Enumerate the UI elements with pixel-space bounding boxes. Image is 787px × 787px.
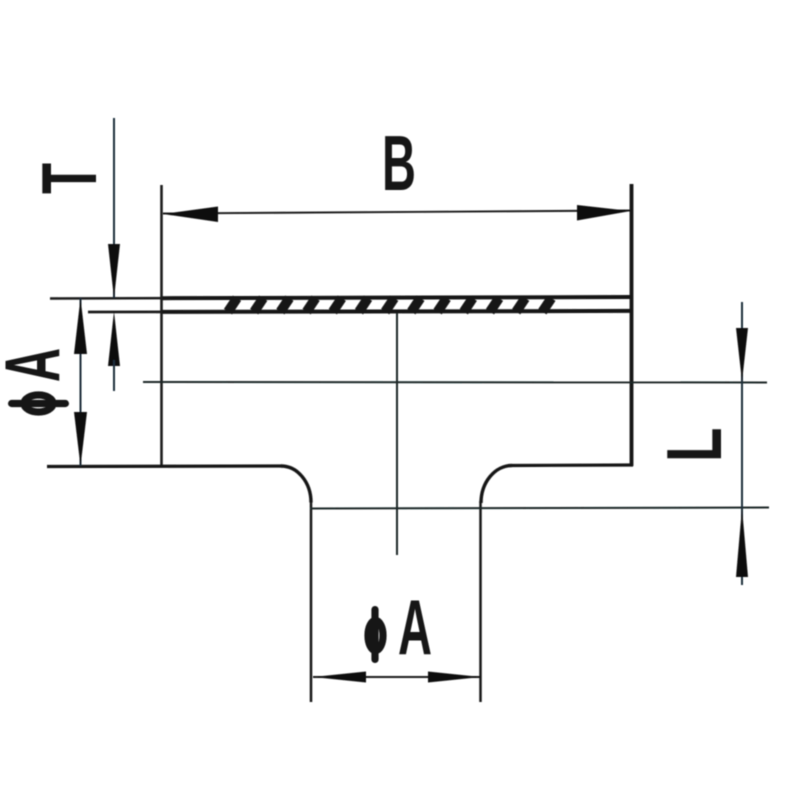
hatching of top wall (228, 298, 551, 311)
T upper arrowhead pointing down (108, 244, 120, 299)
dimension B line (163, 211, 631, 214)
bottom phiA right arrowhead pointing right (428, 672, 481, 683)
L upper arrowhead pointing down (736, 328, 748, 382)
branch vertical centerline (396, 313, 398, 555)
L lower arrowhead pointing up (736, 508, 748, 577)
run pipe bottom line left segment (47, 464, 282, 468)
svg-text:A: A (398, 584, 432, 671)
run pipe outer top line (161, 297, 632, 298)
phiA left upper arrowhead pointing up (74, 298, 87, 354)
svg-text:B: B (382, 120, 416, 207)
L lower extension line (310, 508, 769, 509)
run pipe horizontal centerline (143, 381, 767, 384)
run pipe outer top line (left extension) (50, 297, 232, 300)
T extension line upper (113, 118, 115, 298)
phi symbol of bottom phiA: ellipse (368, 621, 383, 651)
svg-text:T: T (25, 163, 113, 194)
run pipe inner top line (161, 311, 632, 312)
branch pipe right wall (479, 501, 482, 702)
branch pipe left wall (310, 502, 313, 702)
T lower arrowhead pointing up (108, 312, 120, 367)
phi symbol of left phiA: ellipse (24, 395, 53, 412)
phi symbol of bottom phiA: bar (371, 610, 378, 660)
L dimension line (741, 302, 743, 585)
T lower arrow tail (113, 360, 115, 391)
bottom phiA dimension line (313, 676, 481, 678)
dimension B right arrowhead (577, 205, 631, 221)
run pipe inner top line (left extension) (88, 310, 232, 313)
run pipe right edge + B extension line (630, 184, 634, 466)
phiA left lower arrowhead pointing down (74, 412, 87, 466)
svg-text:A: A (0, 348, 76, 382)
run pipe bottom line right segment (512, 463, 633, 467)
dimension B left arrowhead (163, 207, 218, 223)
bottom phiA left arrowhead pointing left (313, 672, 366, 683)
svg-text:L: L (651, 428, 738, 462)
run pipe left edge + B extension line (160, 185, 163, 467)
phi symbol of left phiA: bar (12, 400, 66, 407)
left crotch fillet (281, 466, 311, 503)
phiA left dimension line (80, 298, 82, 466)
right crotch fillet (481, 466, 512, 504)
